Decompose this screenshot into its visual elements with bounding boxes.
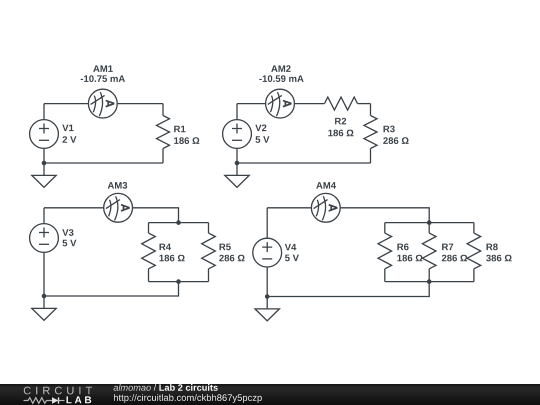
wire R2 to R3 corner xyxy=(358,103,371,105)
wire V3 top to AM3 xyxy=(44,207,104,209)
label AM4 xyxy=(316,182,336,189)
ground circuit4 xyxy=(255,297,279,321)
resistor R1 xyxy=(157,104,170,163)
label V1 xyxy=(62,125,73,132)
node junction circuit1 xyxy=(42,161,47,166)
value AM1 -10.75 mA xyxy=(81,75,125,82)
node ground circuit3 xyxy=(42,294,47,299)
logo resistor zigzag xyxy=(24,398,53,404)
wire AM1 to R1 top xyxy=(117,103,163,105)
value V2 5 V xyxy=(256,136,270,143)
ammeter AM1 xyxy=(88,89,117,118)
wire V3 bottom lead xyxy=(43,252,45,296)
wire V4 bottom lead xyxy=(266,267,268,296)
footer url text xyxy=(114,394,262,403)
wire V1 bottom lead xyxy=(43,148,45,163)
wire V3 top lead xyxy=(43,208,45,224)
voltage source V3 xyxy=(30,224,59,253)
wire V1 top to AM1 xyxy=(44,103,88,105)
wire top rail R6 R7 R8 xyxy=(385,222,474,224)
value R1 186 ohm xyxy=(174,137,199,144)
label R1 xyxy=(174,126,185,133)
value AM2 -10.59 mA xyxy=(259,75,303,82)
node top rail circuit3 xyxy=(176,220,181,225)
wire top rail R4 R5 xyxy=(149,222,209,224)
wire AM3 to parallel feed xyxy=(132,208,178,223)
wire V2 top lead xyxy=(236,104,238,120)
value R3 286 ohm xyxy=(383,137,408,144)
wire V4 top to AM4 xyxy=(267,207,311,209)
label AM2 xyxy=(271,65,290,72)
label R8 xyxy=(487,244,498,251)
resistor R6 xyxy=(378,223,392,282)
wire V2 top to AM2 xyxy=(237,103,266,105)
wire bottom circuit1 xyxy=(44,162,163,164)
wire rail to bottom circuit4 xyxy=(267,282,429,297)
label V3 xyxy=(62,229,73,236)
resistor R3 xyxy=(364,104,377,163)
wire bottom rail R6 R7 R8 xyxy=(385,281,474,283)
logo LAB text xyxy=(67,396,92,403)
ground circuit2 xyxy=(225,163,249,187)
node bottom rail circuit4 xyxy=(427,279,432,284)
voltage source V1 xyxy=(30,120,59,149)
label V4 xyxy=(285,244,297,251)
wire AM2 to R2 xyxy=(295,103,325,105)
value R6 186 ohm xyxy=(397,255,422,262)
wire rail to bottom circuit3 xyxy=(44,282,179,296)
voltage source V2 xyxy=(223,120,252,149)
ground circuit1 xyxy=(32,163,56,187)
logo CIRCUIT text xyxy=(24,387,92,395)
wire bottom rail R4 R5 xyxy=(149,281,209,283)
value V4 5 V xyxy=(285,255,299,262)
footer title: almomao / Lab 2 circuits xyxy=(114,384,151,391)
ground circuit3 xyxy=(32,296,56,320)
node bottom rail circuit3 xyxy=(176,279,181,284)
label V2 xyxy=(255,125,266,132)
label R3 xyxy=(384,126,395,133)
value R8 386 ohm xyxy=(486,255,512,262)
voltage source V4 xyxy=(253,238,282,267)
label R7 xyxy=(442,244,453,251)
label R5 xyxy=(220,244,231,251)
wire V4 top lead xyxy=(266,208,268,239)
label AM3 xyxy=(108,182,128,189)
value R4 186 ohm xyxy=(160,255,185,262)
value V1 2 V xyxy=(63,136,77,143)
wire V2 bottom lead xyxy=(236,148,238,163)
label R4 xyxy=(160,244,172,251)
label AM1 xyxy=(93,65,113,72)
resistor R8 xyxy=(467,223,481,282)
resistor R4 xyxy=(142,223,156,282)
value R7 286 ohm xyxy=(442,255,467,262)
node junction circuit2 xyxy=(235,161,240,166)
wire AM4 to parallel feed xyxy=(340,208,429,223)
wire bottom circuit2 xyxy=(237,162,371,164)
resistor R2 (horizontal) xyxy=(325,97,358,110)
value R2 186 ohm xyxy=(328,130,353,137)
node ground circuit4 xyxy=(265,294,270,299)
wire V1 top lead xyxy=(43,104,45,120)
resistor R7 xyxy=(422,223,436,282)
value R5 286 ohm xyxy=(219,255,244,262)
value V3 5 V xyxy=(63,240,77,247)
ammeter AM2 xyxy=(266,89,295,118)
label R2 xyxy=(335,118,346,125)
resistor R5 xyxy=(202,223,216,282)
ammeter AM4 xyxy=(311,193,340,222)
footer background bar xyxy=(0,384,540,405)
logo diode symbol xyxy=(52,397,59,403)
label R6 xyxy=(397,244,408,251)
node top rail circuit4 xyxy=(427,220,432,225)
ammeter AM3 xyxy=(104,193,133,222)
